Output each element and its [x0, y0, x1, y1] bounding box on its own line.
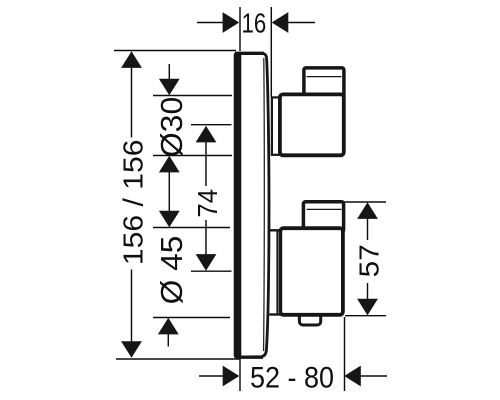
- escutcheon plate bottom edge: [237, 356, 264, 359]
- dim O30 lower extension line: [153, 155, 232, 157]
- upper handle body: [280, 94, 344, 155]
- dim 16 left tail: [197, 22, 223, 24]
- dim 156/156 vertical line upper segment: [131, 52, 133, 138]
- escutcheon plate left edge bar: [234, 52, 242, 359]
- escutcheon plate inner face line: [263, 58, 266, 351]
- dim 74 stem above bottom arrow: [205, 220, 207, 255]
- lower handle body: [280, 228, 343, 315]
- dim 74 lower extension line: [191, 270, 232, 272]
- upper handle grip inner line: [307, 76, 342, 78]
- dim 16 right extension line: [270, 7, 272, 97]
- dim O30 stem above top arrow: [168, 64, 170, 80]
- dim 57 lower extension line: [345, 315, 386, 317]
- dim 74 upper extension line: [191, 124, 232, 126]
- dim O30 bottom arrowhead: [159, 156, 180, 173]
- lower handle grip inner line: [307, 208, 342, 210]
- dim 16 left arrowhead: [223, 12, 240, 33]
- dim O45 top arrowhead: [159, 211, 180, 228]
- dim 74 stem below top arrow: [205, 142, 207, 187]
- dim 16 right arrowhead: [272, 12, 289, 33]
- dim O30/O45 stem between arrows: [168, 172, 170, 212]
- dim 156/156 bottom extension line: [116, 358, 240, 360]
- dim 74 bottom arrowhead: [196, 254, 217, 271]
- lower handle sleeve left line: [276, 230, 278, 314]
- svg-text:Ø30: Ø30: [154, 97, 188, 158]
- dim 156/156 vertical line lower segment: [131, 270, 133, 358]
- dim 52-80 right arrowhead: [344, 366, 361, 387]
- svg-text:Ø 45: Ø 45: [154, 236, 188, 305]
- escutcheon plate outline: [236, 53, 269, 357]
- dim 74 top arrowhead: [196, 126, 217, 143]
- dim 57 stem below top arrow: [367, 218, 369, 240]
- svg-text:57: 57: [354, 244, 385, 277]
- upper handle grip top block: [304, 68, 344, 98]
- dim 52-80 left extension line: [239, 354, 241, 391]
- svg-text:52 - 80: 52 - 80: [250, 361, 334, 395]
- escutcheon plate top edge: [235, 52, 264, 55]
- dim O45 lower extension line: [153, 317, 230, 319]
- dim 52-80 right extension line: [344, 317, 346, 391]
- svg-text:16: 16: [242, 8, 267, 39]
- dim O45 bottom arrowhead: [158, 318, 179, 335]
- dim 16 right tail: [288, 22, 315, 24]
- dim 16 left extension line: [239, 7, 241, 51]
- lower handle grip top block: [303, 202, 343, 232]
- dim O30 upper extension line: [153, 95, 232, 97]
- svg-text:156 / 156: 156 / 156: [118, 140, 149, 266]
- dim 52-80 left tail: [199, 375, 224, 377]
- lower handle sleeve top edge: [269, 229, 283, 231]
- dim 156/156 top extension line: [114, 50, 236, 52]
- dim 57 top arrowhead: [357, 202, 378, 219]
- dim 57 bottom arrowhead: [357, 299, 378, 316]
- dim 156/156 bottom arrowhead: [121, 341, 142, 358]
- dim 52-80 right tail: [361, 375, 388, 377]
- dim O45 upper extension line: [153, 227, 230, 229]
- dim 52-80 left arrowhead: [223, 366, 240, 387]
- dim 57 upper extension line: [344, 201, 386, 203]
- lower handle eco-stop button tab: [299, 310, 320, 325]
- dim O45 stem below bottom arrow: [167, 334, 169, 347]
- dim O30 top arrowhead: [159, 79, 180, 96]
- dim 156/156 top arrowhead: [121, 51, 142, 68]
- dim 57 stem above bottom arrow: [367, 283, 369, 300]
- svg-text:74: 74: [192, 189, 223, 218]
- upper handle sleeve: [272, 97, 281, 154]
- lower handle sleeve bottom edge: [269, 313, 283, 315]
